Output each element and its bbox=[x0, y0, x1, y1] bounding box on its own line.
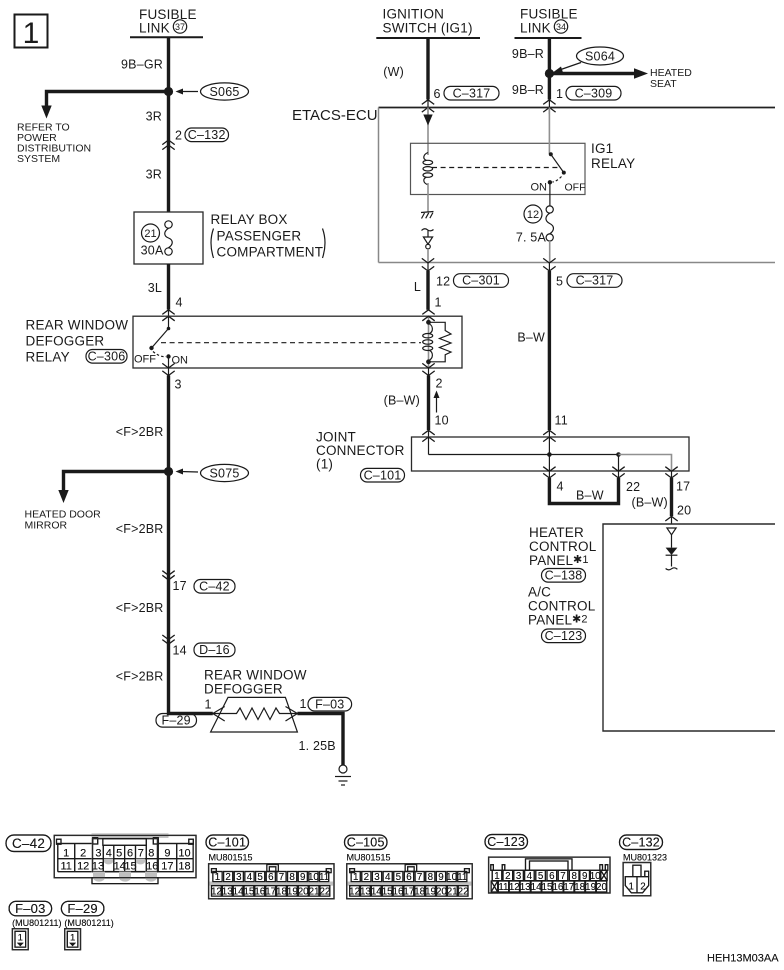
IG1 relay coil bbox=[423, 153, 433, 185]
svg-text:6: 6 bbox=[127, 847, 133, 859]
pin 3 chevrons out bbox=[162, 363, 174, 368]
svg-text:16: 16 bbox=[552, 882, 563, 893]
ETACS-ECU box bbox=[379, 107, 776, 109]
relay coil with resistor bbox=[423, 316, 451, 368]
svg-text:15: 15 bbox=[382, 886, 393, 897]
wire branch heated seat bbox=[549, 72, 636, 75]
pin 10 chevrons bbox=[422, 430, 434, 435]
connector label C-132 bbox=[620, 835, 663, 850]
svg-text:1: 1 bbox=[23, 17, 40, 50]
svg-text:3: 3 bbox=[374, 872, 380, 883]
connector label F-03 bbox=[9, 901, 52, 916]
svg-text:PANEL: PANEL bbox=[528, 613, 573, 628]
svg-text:22: 22 bbox=[626, 480, 640, 494]
svg-text:2: 2 bbox=[225, 872, 230, 883]
label refer to power distribution system bbox=[17, 122, 91, 166]
defogger heater element resistor bbox=[213, 708, 298, 720]
svg-text:22: 22 bbox=[458, 886, 469, 897]
arrowhead power distribution bbox=[41, 106, 51, 119]
svg-text:18: 18 bbox=[574, 882, 585, 893]
connector C-42 pinout bbox=[54, 833, 196, 883]
svg-text:7: 7 bbox=[138, 847, 144, 859]
svg-text:MIRROR: MIRROR bbox=[25, 520, 68, 532]
svg-text:B–W: B–W bbox=[576, 489, 604, 503]
svg-text:10: 10 bbox=[446, 872, 457, 883]
svg-text:18: 18 bbox=[276, 886, 287, 897]
coil to chassis wire bbox=[427, 183, 429, 212]
svg-text:3R: 3R bbox=[146, 168, 162, 182]
svg-text:OFF: OFF bbox=[565, 182, 586, 194]
svg-text:6: 6 bbox=[549, 871, 555, 882]
svg-text:S065: S065 bbox=[210, 85, 240, 99]
svg-text:9B–R: 9B–R bbox=[512, 83, 544, 97]
svg-text:15: 15 bbox=[542, 882, 553, 893]
svg-text:FUSIBLE: FUSIBLE bbox=[520, 7, 578, 22]
connector F-03 pinout bbox=[12, 929, 28, 950]
svg-text:21: 21 bbox=[144, 228, 156, 240]
wire defogger relay pin3 down bbox=[169, 376, 213, 714]
svg-text:17: 17 bbox=[676, 480, 690, 494]
svg-text:(MU801211): (MU801211) bbox=[64, 918, 113, 928]
svg-text:4: 4 bbox=[106, 847, 112, 859]
svg-text:16: 16 bbox=[393, 886, 404, 897]
rear window defogger relay box bbox=[133, 316, 462, 368]
svg-text:4: 4 bbox=[557, 480, 564, 494]
svg-text:PASSENGER: PASSENGER bbox=[217, 229, 302, 244]
svg-text:C–123: C–123 bbox=[487, 835, 525, 849]
svg-text:1: 1 bbox=[70, 933, 75, 944]
svg-text:REAR WINDOW: REAR WINDOW bbox=[26, 318, 129, 333]
pin 4 chevrons out bbox=[543, 467, 555, 472]
svg-text:C–42: C–42 bbox=[199, 580, 230, 594]
wire relay pin2 to joint connector pin10 bbox=[427, 376, 430, 431]
svg-text:17: 17 bbox=[173, 579, 187, 593]
pin 4 chevrons into relay bbox=[162, 310, 174, 315]
defogger chevron left F-29 bbox=[213, 707, 225, 722]
svg-text:16: 16 bbox=[254, 886, 265, 897]
svg-text:C–138: C–138 bbox=[545, 569, 583, 583]
svg-text:17: 17 bbox=[403, 886, 414, 897]
svg-text:C–42: C–42 bbox=[12, 836, 45, 851]
svg-text:1. 25B: 1. 25B bbox=[299, 739, 336, 753]
svg-text:4: 4 bbox=[247, 872, 253, 883]
svg-text:C–317: C–317 bbox=[453, 86, 491, 100]
IG1 relay box bbox=[411, 143, 586, 194]
svg-text:HEATER: HEATER bbox=[529, 525, 584, 540]
svg-text:8: 8 bbox=[571, 871, 577, 882]
svg-text:13: 13 bbox=[92, 860, 104, 872]
svg-text:13: 13 bbox=[360, 886, 371, 897]
svg-text:C–105: C–105 bbox=[347, 836, 385, 850]
entry triangle hollow bbox=[667, 528, 676, 548]
svg-text:C–301: C–301 bbox=[462, 274, 500, 288]
svg-text:<F>2BR: <F>2BR bbox=[116, 670, 164, 684]
svg-text:6: 6 bbox=[434, 87, 441, 101]
svg-text:12: 12 bbox=[509, 882, 520, 893]
connector label C-105 bbox=[345, 835, 388, 850]
a/c control panel label bbox=[528, 585, 596, 628]
connector label C-101 bbox=[206, 835, 249, 850]
wire ETACS pin12 to relay pin1 bbox=[426, 271, 429, 310]
joint connector label bbox=[316, 430, 405, 472]
svg-text:21: 21 bbox=[309, 886, 320, 897]
svg-text:13: 13 bbox=[222, 886, 233, 897]
svg-text:10: 10 bbox=[178, 847, 190, 859]
svg-text:ETACS-ECU: ETACS-ECU bbox=[292, 107, 378, 124]
label heated seat bbox=[650, 67, 692, 90]
svg-text:19: 19 bbox=[425, 886, 436, 897]
connector C-123 pinout bbox=[489, 857, 610, 893]
svg-text:19: 19 bbox=[287, 886, 298, 897]
svg-text:(1): (1) bbox=[316, 457, 333, 472]
wire pin17 to heater panel bbox=[670, 478, 673, 516]
svg-text:MU801323: MU801323 bbox=[623, 853, 667, 863]
svg-text:20: 20 bbox=[596, 882, 607, 893]
wire relay box to defogger relay bbox=[167, 264, 170, 310]
svg-text:C–132: C–132 bbox=[622, 836, 660, 850]
connector C-105 pinout bbox=[347, 864, 472, 899]
pin 17 chevrons out bbox=[665, 467, 677, 472]
svg-text:11: 11 bbox=[319, 872, 329, 883]
svg-text:C–123: C–123 bbox=[545, 629, 583, 643]
relay switch blade bbox=[149, 327, 170, 368]
svg-text:2: 2 bbox=[505, 871, 510, 882]
svg-text:11: 11 bbox=[60, 860, 71, 872]
connector F-03 pinout bbox=[12, 929, 28, 950]
svg-text:7: 7 bbox=[279, 872, 284, 883]
svg-text:C–317: C–317 bbox=[576, 274, 614, 288]
svg-text:C–309: C–309 bbox=[575, 86, 613, 100]
pin 20 chevron bbox=[665, 516, 677, 521]
ground bbox=[335, 765, 351, 785]
svg-text:F–03: F–03 bbox=[315, 697, 344, 711]
node S075 junction bbox=[164, 467, 173, 476]
connector label C-123 bbox=[542, 629, 586, 643]
svg-text:DEFOGGER: DEFOGGER bbox=[26, 334, 105, 349]
svg-text:9: 9 bbox=[300, 872, 305, 883]
wire branch heated door mirror bbox=[64, 472, 169, 493]
svg-text:30A: 30A bbox=[141, 244, 164, 258]
direction arrow solid bbox=[423, 115, 432, 126]
svg-text:11: 11 bbox=[457, 872, 467, 883]
svg-text:14: 14 bbox=[173, 644, 187, 658]
connector label C-123 bbox=[485, 835, 528, 850]
svg-text:(B–W): (B–W) bbox=[384, 394, 420, 408]
svg-text:C–101: C–101 bbox=[208, 836, 246, 850]
svg-text:CONTROL: CONTROL bbox=[529, 539, 597, 554]
node S065 junction bbox=[164, 87, 173, 96]
svg-text:5: 5 bbox=[396, 872, 402, 883]
svg-text:C–306: C–306 bbox=[88, 350, 126, 364]
svg-text:SWITCH (IG1): SWITCH (IG1) bbox=[383, 21, 473, 36]
svg-text:12: 12 bbox=[527, 209, 539, 221]
connector label C-123 bbox=[485, 835, 528, 850]
svg-text:10: 10 bbox=[590, 871, 601, 882]
svg-text:14: 14 bbox=[233, 886, 244, 897]
wire branch to power distribution bbox=[47, 92, 169, 109]
wire fusible link 37 to relay box bbox=[167, 37, 170, 212]
connector label C-42 bbox=[194, 580, 235, 594]
svg-text:1: 1 bbox=[300, 697, 307, 711]
connector label C-101 bbox=[361, 468, 405, 482]
svg-text:6: 6 bbox=[406, 872, 412, 883]
svg-text:14: 14 bbox=[531, 882, 542, 893]
connector label F-29 bbox=[61, 901, 104, 916]
svg-text:18: 18 bbox=[414, 886, 425, 897]
svg-text:11: 11 bbox=[555, 414, 568, 428]
svg-text:4: 4 bbox=[385, 872, 391, 883]
svg-text:C–101: C–101 bbox=[364, 468, 402, 482]
svg-text:12: 12 bbox=[349, 886, 360, 897]
svg-text:2: 2 bbox=[175, 129, 182, 143]
svg-text:20: 20 bbox=[677, 504, 691, 518]
svg-text:LINK: LINK bbox=[520, 21, 551, 36]
svg-text:PANEL: PANEL bbox=[529, 553, 574, 568]
svg-text:3: 3 bbox=[516, 871, 522, 882]
svg-text:2: 2 bbox=[436, 377, 443, 391]
svg-text:HEH13M03AA: HEH13M03AA bbox=[707, 953, 779, 965]
svg-text:✱1: ✱1 bbox=[573, 554, 589, 566]
svg-text:MU801515: MU801515 bbox=[347, 853, 391, 863]
svg-text:3R: 3R bbox=[146, 110, 162, 124]
svg-text:✱2: ✱2 bbox=[572, 614, 588, 626]
defogger grid trapezoid bbox=[211, 697, 298, 732]
svg-text:1: 1 bbox=[215, 872, 220, 883]
svg-text:8: 8 bbox=[289, 872, 295, 883]
fusible link 37 label bbox=[130, 7, 203, 37]
svg-text:S064: S064 bbox=[585, 50, 615, 64]
svg-text:(MU801211): (MU801211) bbox=[12, 918, 61, 928]
svg-text:SEAT: SEAT bbox=[650, 78, 677, 90]
connector C-101 pinout bbox=[209, 864, 334, 899]
semiconductor wave symbol bbox=[422, 229, 434, 231]
relay linkage dashed bbox=[161, 342, 421, 344]
svg-text:5: 5 bbox=[116, 847, 122, 859]
svg-text:10: 10 bbox=[435, 414, 449, 428]
svg-text:<F>2BR: <F>2BR bbox=[116, 522, 164, 536]
svg-text:1: 1 bbox=[435, 296, 442, 310]
svg-text:9: 9 bbox=[582, 871, 587, 882]
IG1 relay linkage dashed bbox=[432, 167, 560, 169]
svg-text:3L: 3L bbox=[148, 281, 162, 295]
connector label C-301 bbox=[454, 274, 509, 288]
pin 12 chevrons out bbox=[422, 258, 434, 263]
relay box (passenger compartment) bbox=[134, 212, 203, 264]
svg-text:5: 5 bbox=[257, 872, 263, 883]
connector label D-16 bbox=[194, 643, 235, 657]
svg-text:1: 1 bbox=[556, 87, 563, 101]
svg-text:C–132: C–132 bbox=[188, 128, 226, 142]
pin 22 chevrons out bbox=[612, 467, 624, 472]
semiconductor diode symbol bbox=[423, 231, 432, 249]
svg-text:4: 4 bbox=[176, 296, 183, 310]
svg-text:COMPARTMENT: COMPARTMENT bbox=[217, 245, 324, 260]
fuse 12 circled bbox=[524, 205, 542, 223]
svg-text:D–16: D–16 bbox=[199, 643, 230, 657]
svg-text:17: 17 bbox=[265, 886, 276, 897]
connector C-105 pinout bbox=[347, 864, 472, 899]
connector label F-03 bbox=[9, 901, 52, 916]
svg-text:8: 8 bbox=[428, 872, 434, 883]
svg-text:10: 10 bbox=[308, 872, 319, 883]
IG1 relay switch bbox=[548, 108, 566, 185]
connector label C-42 bbox=[6, 835, 51, 852]
wire ON to fuse bbox=[549, 182, 551, 206]
svg-text:RELAY BOX: RELAY BOX bbox=[211, 212, 288, 227]
pin 6 chevrons bbox=[422, 100, 434, 105]
svg-text:21: 21 bbox=[447, 886, 458, 897]
svg-text:8: 8 bbox=[148, 847, 154, 859]
svg-text:A/C: A/C bbox=[528, 585, 551, 600]
S064 connector oval bbox=[554, 47, 624, 73]
connector label C-101 bbox=[206, 835, 249, 850]
connector label F-03 bbox=[308, 697, 352, 711]
svg-text:14: 14 bbox=[371, 886, 382, 897]
svg-text:(B–W): (B–W) bbox=[632, 496, 668, 510]
svg-text:IGNITION: IGNITION bbox=[383, 7, 445, 22]
svg-text:2: 2 bbox=[80, 847, 86, 859]
svg-text:7. 5A: 7. 5A bbox=[516, 231, 547, 245]
svg-text:17: 17 bbox=[161, 860, 173, 872]
svg-text:OFF: OFF bbox=[134, 354, 156, 366]
S065 connector oval bbox=[176, 83, 249, 100]
svg-text:1: 1 bbox=[628, 882, 633, 893]
connector C-42 chevrons bbox=[162, 571, 174, 576]
svg-text:11: 11 bbox=[498, 882, 508, 893]
svg-text:1: 1 bbox=[18, 933, 23, 944]
joint connector box bbox=[412, 437, 690, 471]
svg-text:LINK: LINK bbox=[139, 21, 170, 36]
fuse 7.5A symbol bbox=[546, 206, 554, 241]
wire fusible link 34 down bbox=[548, 38, 551, 100]
pin 11 chevrons bbox=[543, 430, 555, 435]
connector D-16 chevrons bbox=[162, 635, 174, 640]
connector label C-309 bbox=[566, 86, 621, 100]
svg-text:1: 1 bbox=[494, 871, 499, 882]
svg-text:IG1: IG1 bbox=[591, 141, 613, 156]
svg-text:2: 2 bbox=[364, 872, 369, 883]
label heated door mirror bbox=[25, 509, 102, 532]
svg-text:F–29: F–29 bbox=[67, 901, 97, 916]
svg-text:3: 3 bbox=[175, 378, 182, 392]
svg-text:F–03: F–03 bbox=[15, 901, 45, 916]
direction arrow up bbox=[434, 391, 440, 413]
svg-text:20: 20 bbox=[298, 886, 309, 897]
svg-text:RELAY: RELAY bbox=[26, 350, 70, 365]
relay box label bbox=[211, 212, 326, 260]
svg-text:1: 1 bbox=[353, 872, 358, 883]
svg-text:19: 19 bbox=[585, 882, 596, 893]
svg-text:15: 15 bbox=[243, 886, 254, 897]
connector label C-132 bbox=[185, 128, 229, 142]
fusible link 34 label bbox=[515, 7, 582, 39]
heater control panel box bbox=[603, 524, 775, 731]
connector label C-317 bbox=[567, 274, 622, 288]
svg-text:L: L bbox=[414, 280, 421, 294]
connector label F-29 bbox=[156, 714, 197, 728]
svg-text:SYSTEM: SYSTEM bbox=[17, 153, 60, 165]
IG1 relay label bbox=[591, 141, 635, 171]
svg-text:13: 13 bbox=[520, 882, 531, 893]
svg-text:7: 7 bbox=[560, 871, 565, 882]
svg-text:6: 6 bbox=[268, 872, 274, 883]
connector label C-105 bbox=[345, 835, 388, 850]
wire fuse to pin 5 bbox=[549, 241, 551, 263]
diode in heater panel bbox=[666, 548, 678, 567]
svg-text:16: 16 bbox=[146, 860, 158, 872]
pin 1 chevrons bbox=[422, 310, 434, 315]
svg-text:1: 1 bbox=[63, 847, 69, 859]
svg-text:RELAY: RELAY bbox=[591, 156, 635, 171]
wire U link pin4 to pin22 bbox=[549, 478, 618, 504]
relay label bbox=[26, 318, 129, 365]
svg-text:ON: ON bbox=[531, 182, 548, 194]
node S064 junction bbox=[545, 69, 554, 78]
svg-text:S075: S075 bbox=[210, 467, 240, 481]
connector C-101 pinout bbox=[209, 864, 334, 899]
svg-text:12: 12 bbox=[77, 860, 89, 872]
connector label C-138 bbox=[542, 569, 586, 583]
connector label C-317 bbox=[444, 86, 499, 100]
connector C-132 pinout bbox=[623, 863, 651, 896]
wire defogger to ground bbox=[297, 714, 343, 766]
svg-text:22: 22 bbox=[319, 886, 330, 897]
svg-text:9B–GR: 9B–GR bbox=[121, 58, 163, 72]
svg-text:4: 4 bbox=[527, 871, 533, 882]
wire ignition switch to ETACS bbox=[426, 38, 429, 100]
wire to pin 12 bbox=[427, 249, 429, 263]
fuse 21 circled bbox=[142, 224, 160, 242]
svg-text:DEFOGGER: DEFOGGER bbox=[204, 682, 283, 697]
connector F-29 pinout bbox=[65, 929, 81, 950]
S075 connector oval bbox=[176, 464, 249, 481]
svg-text:7: 7 bbox=[417, 872, 422, 883]
chassis ground symbol bbox=[421, 212, 434, 219]
svg-text:12: 12 bbox=[436, 275, 450, 289]
joint connector internal bus bbox=[429, 437, 672, 471]
wire ETACS pin5 down bbox=[548, 271, 551, 430]
svg-text:MU801515: MU801515 bbox=[209, 853, 253, 863]
svg-text:<F>2BR: <F>2BR bbox=[116, 425, 164, 439]
svg-text:37: 37 bbox=[175, 22, 185, 32]
svg-text:3: 3 bbox=[236, 872, 242, 883]
svg-text:9B–R: 9B–R bbox=[512, 47, 544, 61]
connector C-132 chevrons bbox=[162, 140, 174, 145]
svg-text:5: 5 bbox=[538, 871, 544, 882]
svg-text:20: 20 bbox=[436, 886, 447, 897]
svg-text:2: 2 bbox=[640, 882, 645, 893]
connector label C-306 bbox=[86, 350, 127, 364]
svg-text:34: 34 bbox=[556, 22, 566, 32]
page number box 1 bbox=[15, 15, 48, 51]
svg-text:5: 5 bbox=[556, 275, 563, 289]
connector F-29 pinout bbox=[65, 929, 81, 950]
connector C-123 pinout bbox=[489, 857, 610, 893]
arrowhead heated door mirror bbox=[58, 490, 68, 503]
svg-text:1: 1 bbox=[205, 698, 212, 712]
svg-text:15: 15 bbox=[124, 860, 136, 872]
pin 1 chevrons bbox=[543, 100, 555, 105]
svg-text:3: 3 bbox=[95, 847, 101, 859]
connector C-42 pinout bbox=[54, 833, 196, 883]
svg-text:17: 17 bbox=[563, 882, 574, 893]
svg-text:12: 12 bbox=[211, 886, 222, 897]
label rear window defogger bbox=[204, 668, 307, 697]
wave terminator bbox=[666, 568, 678, 570]
svg-text:(W): (W) bbox=[383, 65, 404, 79]
svg-text:9: 9 bbox=[164, 847, 170, 859]
svg-text:REAR WINDOW: REAR WINDOW bbox=[204, 668, 307, 683]
